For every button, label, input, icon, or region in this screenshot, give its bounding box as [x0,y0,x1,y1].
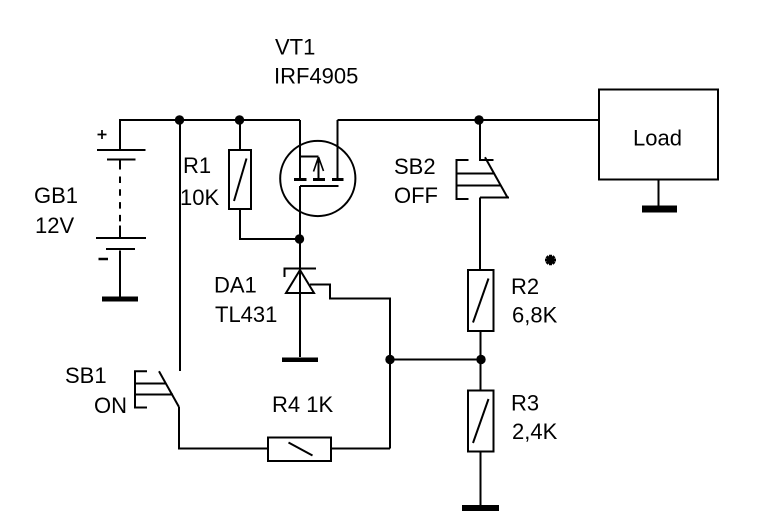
svg-text:SB1: SB1 [65,363,107,388]
svg-text:GB1: GB1 [34,183,78,208]
svg-text:DA1: DA1 [214,273,257,298]
svg-text:SB2: SB2 [394,154,436,179]
svg-text:IRF4905: IRF4905 [274,64,358,89]
svg-text:R4 1K: R4 1K [272,392,333,417]
svg-text:R3: R3 [511,391,539,416]
svg-text:R2: R2 [511,274,539,299]
svg-text:12V: 12V [35,213,74,238]
svg-text:6,8K: 6,8K [512,303,558,328]
svg-text:OFF: OFF [394,183,438,208]
svg-text:ON: ON [94,393,127,418]
svg-text:Load: Load [633,126,682,151]
svg-text:TL431: TL431 [215,302,277,327]
svg-text:10K: 10K [180,185,219,210]
svg-text:R1: R1 [183,153,211,178]
svg-text:VT1: VT1 [275,35,315,60]
svg-text:2,4K: 2,4K [512,419,558,444]
